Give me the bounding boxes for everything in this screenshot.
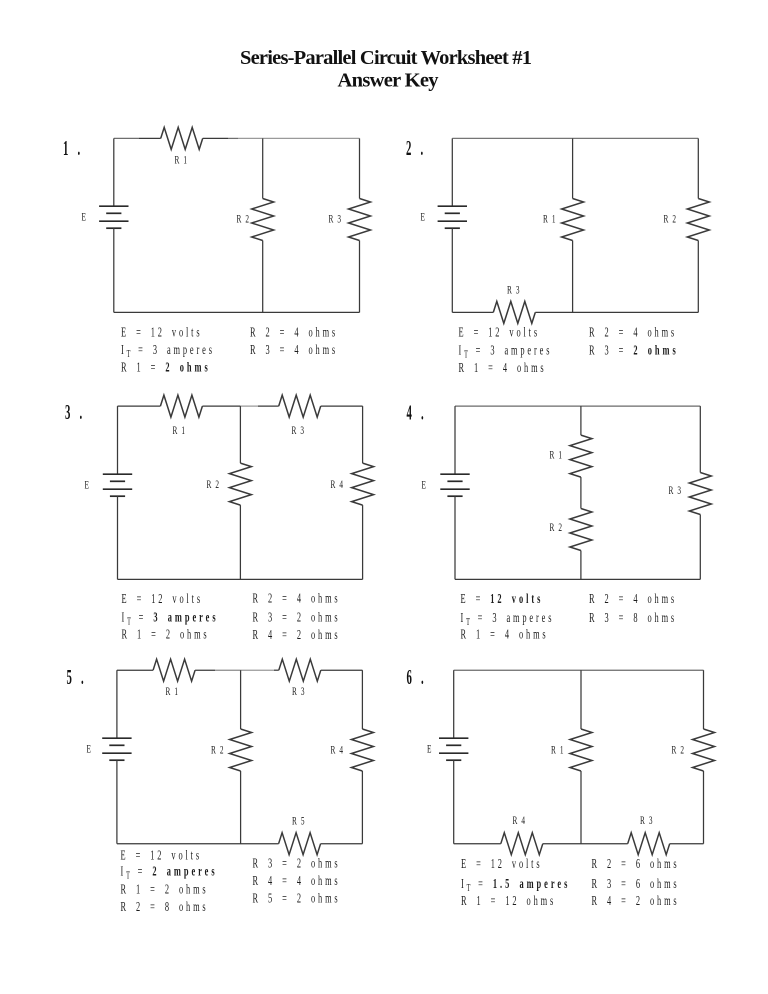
- svg-text:E: E: [422, 479, 428, 492]
- wire: C3 left branch lower: [117, 496, 119, 579]
- resistor R2 (circuit 1): [252, 199, 274, 241]
- label E (circuit 5): [87, 743, 93, 756]
- svg-text:R 4: R 4: [331, 744, 345, 757]
- wire: C6 bottom segment b: [543, 843, 628, 845]
- wire: C4 top: [455, 405, 700, 407]
- svg-text:3 .: 3 .: [65, 400, 85, 424]
- label R2 (circuit 4): [550, 521, 564, 534]
- svg-text:R 5 = 2 ohms: R 5 = 2 ohms: [253, 892, 341, 906]
- resistor R2 (circuit 4): [570, 509, 592, 551]
- wire: C5 middle branch lower: [240, 771, 242, 844]
- svg-text:E = 12 volts: E = 12 volts: [459, 326, 540, 340]
- wire: C3 middle branch lower: [239, 505, 241, 579]
- svg-text:R 4: R 4: [513, 814, 527, 827]
- wire: C4 middle branch lower: [580, 551, 582, 580]
- wire: C2 left branch upper: [451, 138, 453, 206]
- svg-text:R 3: R 3: [640, 814, 654, 827]
- wire: C3 top segment b: [202, 405, 240, 407]
- battery E (circuit 2): [438, 205, 467, 207]
- svg-text:R 3: R 3: [507, 284, 521, 297]
- label R2 (circuit 3): [207, 478, 221, 491]
- label R1 (circuit 3): [173, 424, 187, 437]
- wire: C2 middle branch lower: [572, 241, 574, 313]
- wire: C1 left branch upper: [113, 138, 115, 206]
- label R3 (circuit 3): [292, 424, 306, 437]
- answers circuit 6 left column: [461, 857, 542, 871]
- resistor R2 (circuit 3): [229, 463, 251, 505]
- svg-text:R 2 = 8 ohms: R 2 = 8 ohms: [121, 900, 209, 914]
- svg-text:4 .: 4 .: [407, 401, 427, 425]
- svg-text:R 3 = 2 ohms: R 3 = 2 ohms: [589, 344, 679, 358]
- battery E (circuit 6): [439, 737, 468, 739]
- svg-text:E: E: [87, 743, 93, 756]
- svg-text:R 2 = 6 ohms: R 2 = 6 ohms: [592, 857, 680, 871]
- svg-text:R 1 = 4 ohms: R 1 = 4 ohms: [461, 628, 549, 642]
- svg-text:IT = 2 amperes: IT = 2 amperes: [121, 865, 218, 881]
- svg-text:R 4 = 2 ohms: R 4 = 2 ohms: [253, 628, 341, 642]
- svg-text:R 1: R 1: [550, 449, 564, 462]
- wire: C5 top segment b: [195, 669, 215, 671]
- label R1 (circuit 4): [550, 449, 564, 462]
- svg-text:E = 12 volts: E = 12 volts: [461, 592, 544, 606]
- answers circuit 5 right column: [253, 857, 341, 871]
- battery E (circuit 4): [440, 473, 469, 475]
- wire: C6 bottom segment c: [670, 843, 704, 845]
- svg-text:2 .: 2 .: [406, 136, 426, 160]
- svg-text:R 3 = 2 ohms: R 3 = 2 ohms: [253, 857, 341, 871]
- wire: C5 bottom-left segment: [117, 843, 279, 845]
- svg-text:E: E: [421, 211, 427, 224]
- svg-text:IT = 3 amperes: IT = 3 amperes: [121, 343, 215, 359]
- svg-text:R 2 = 4 ohms: R 2 = 4 ohms: [253, 592, 341, 606]
- svg-text:R 3: R 3: [669, 484, 683, 497]
- wire: C4 middle branch upper: [580, 406, 582, 435]
- wire: C2 top: [452, 137, 698, 139]
- svg-text:R 4 = 4 ohms: R 4 = 4 ohms: [253, 874, 341, 888]
- svg-text:R 2 = 4 ohms: R 2 = 4 ohms: [589, 592, 677, 606]
- answers circuit 3 right column: [253, 592, 341, 606]
- svg-text:R 3: R 3: [329, 213, 343, 226]
- svg-text:R 3 = 2 ohms: R 3 = 2 ohms: [253, 611, 341, 625]
- wire: C1 left branch lower: [113, 228, 115, 312]
- wire: C5 top segment c: [321, 669, 363, 671]
- svg-text:IT = 1.5 amperes: IT = 1.5 amperes: [461, 877, 570, 893]
- wire: C2 right branch lower: [697, 241, 699, 313]
- title line 1: [240, 47, 532, 69]
- answers circuit 2 left column: [459, 326, 540, 340]
- wire: C6 left branch lower: [453, 760, 455, 844]
- wire: C1 middle branch lower: [262, 241, 264, 313]
- wire: C3 right branch upper: [362, 406, 364, 463]
- svg-text:R 2: R 2: [211, 744, 225, 757]
- answers circuit 6 right column: [592, 857, 680, 871]
- label R3 (circuit 4): [669, 484, 683, 497]
- label R2 (circuit 2): [664, 213, 678, 226]
- svg-text:R 3 = 8 ohms: R 3 = 8 ohms: [589, 611, 677, 625]
- battery E (circuit 1): [99, 205, 128, 207]
- svg-text:R 4 = 2 ohms: R 4 = 2 ohms: [592, 894, 680, 908]
- title line 2: [338, 70, 440, 92]
- resistor R3 (circuit 4): [689, 473, 711, 515]
- label R2 (circuit 6): [672, 744, 686, 757]
- svg-text:R 3 = 4 ohms: R 3 = 4 ohms: [250, 343, 338, 357]
- wire: C1 bottom: [114, 311, 360, 313]
- resistor R4 (circuit 6): [501, 833, 543, 855]
- svg-text:E: E: [427, 743, 433, 756]
- resistor R2 (circuit 2): [687, 199, 709, 241]
- svg-text:R 1: R 1: [173, 424, 187, 437]
- resistor R3 (circuit 6): [628, 833, 670, 855]
- svg-text:R 1: R 1: [543, 213, 557, 226]
- wire: C5 left branch upper: [116, 670, 118, 738]
- label E (circuit 6): [427, 743, 433, 756]
- label R4 (circuit 3): [331, 478, 345, 491]
- wire: C4 right branch upper: [699, 406, 701, 472]
- wire: C4 left branch lower: [454, 496, 456, 579]
- wire: C3 middle branch upper: [239, 406, 241, 463]
- wire: C5 top segment a: [117, 669, 153, 671]
- label R4 (circuit 6): [513, 814, 527, 827]
- svg-text:R 2 = 4 ohms: R 2 = 4 ohms: [250, 326, 338, 340]
- wire: C4 left branch upper: [454, 406, 456, 474]
- label R2 (circuit 1): [237, 213, 251, 226]
- wire: C6 middle branch upper: [580, 670, 582, 729]
- wire: C3 top segment a: [118, 405, 161, 407]
- node: circuit 5 number label: [67, 665, 87, 689]
- svg-text:R 1 = 2 ohms: R 1 = 2 ohms: [122, 628, 210, 642]
- svg-text:R 1: R 1: [175, 154, 189, 167]
- label E (circuit 3): [85, 479, 91, 492]
- svg-text:R 2: R 2: [664, 213, 678, 226]
- svg-text:R 1 = 4 ohms: R 1 = 4 ohms: [459, 361, 547, 375]
- resistor R3 (circuit 5): [279, 659, 321, 681]
- answers circuit 4 left column: [461, 592, 544, 606]
- wire: C4 middle branch mid (R1-R2): [580, 477, 582, 508]
- svg-text:Series-Parallel Circuit Worksh: Series-Parallel Circuit Worksheet #1: [240, 47, 532, 69]
- svg-text:IT = 3 amperes: IT = 3 amperes: [461, 611, 555, 627]
- wire: C6 middle branch lower: [580, 771, 582, 844]
- label R3 (circuit 6): [640, 814, 654, 827]
- svg-text:R 1: R 1: [166, 685, 180, 698]
- wire: C6 bottom segment a: [454, 843, 501, 845]
- node: circuit 6 number label: [407, 665, 427, 689]
- svg-text:6 .: 6 .: [407, 665, 427, 689]
- battery E (circuit 5): [102, 737, 131, 739]
- label R2 (circuit 5): [211, 744, 225, 757]
- wire: C5 right branch upper: [361, 670, 363, 729]
- wire: C5 middle branch upper: [240, 670, 242, 729]
- battery E (circuit 3): [103, 473, 132, 475]
- answers circuit 5 left column: [121, 849, 202, 863]
- wire: C1 middle branch upper: [262, 138, 264, 198]
- label E (circuit 2): [421, 211, 427, 224]
- resistor R1 (circuit 2): [562, 199, 584, 241]
- wire: C6 right branch upper: [703, 670, 705, 729]
- resistor R5 (circuit 5): [279, 833, 321, 855]
- label R3 (circuit 2): [507, 284, 521, 297]
- resistor R2 (circuit 5): [230, 729, 252, 771]
- wire: C2 bottom-right segment: [535, 311, 698, 313]
- wire: C3 right branch lower: [362, 505, 364, 579]
- svg-text:IT = 3 amperes: IT = 3 amperes: [122, 611, 219, 627]
- svg-text:R 1: R 1: [551, 744, 565, 757]
- wire: C1 right branch lower: [359, 241, 361, 313]
- svg-text:E = 12 volts: E = 12 volts: [121, 849, 202, 863]
- svg-text:E = 12 volts: E = 12 volts: [121, 326, 202, 340]
- svg-text:R 2 = 4 ohms: R 2 = 4 ohms: [589, 326, 677, 340]
- svg-text:R 2: R 2: [207, 478, 221, 491]
- svg-text:5 .: 5 .: [67, 665, 87, 689]
- wire: C6 top: [454, 669, 704, 671]
- svg-text:1 .: 1 .: [63, 136, 83, 160]
- svg-text:R 1 = 2 ohms: R 1 = 2 ohms: [121, 361, 211, 375]
- svg-text:R 3 = 6 ohms: R 3 = 6 ohms: [592, 877, 680, 891]
- wire: C3 bottom: [118, 578, 363, 580]
- wire: C2 left branch lower: [451, 228, 453, 312]
- wire: C5 bottom-right segment: [321, 843, 363, 845]
- wire: C2 bottom-left segment: [452, 311, 493, 313]
- label R4 (circuit 5): [331, 744, 345, 757]
- svg-text:R 2: R 2: [550, 521, 564, 534]
- svg-text:R 2: R 2: [672, 744, 686, 757]
- resistor R3 (circuit 3): [279, 395, 321, 417]
- node: circuit 2 number label: [406, 136, 426, 160]
- svg-text:R 2: R 2: [237, 213, 251, 226]
- svg-text:E = 12 volts: E = 12 volts: [122, 592, 203, 606]
- svg-text:E: E: [82, 211, 88, 224]
- svg-text:IT = 3 amperes: IT = 3 amperes: [459, 344, 553, 360]
- resistor R4 (circuit 3): [352, 463, 374, 505]
- resistor R1 (circuit 4): [570, 435, 592, 477]
- svg-text:R 1 = 2 ohms: R 1 = 2 ohms: [121, 883, 209, 897]
- svg-text:R 5: R 5: [292, 815, 306, 828]
- node: circuit 3 number label: [65, 400, 85, 424]
- resistor R1 (circuit 5): [153, 659, 195, 681]
- resistor R4 (circuit 5): [351, 729, 373, 771]
- svg-text:R 4: R 4: [331, 478, 345, 491]
- label R1 (circuit 6): [551, 744, 565, 757]
- wire: C2 right branch upper: [697, 138, 699, 198]
- node: circuit 1 number label: [63, 136, 83, 160]
- label R1 (circuit 2): [543, 213, 557, 226]
- resistor R1 (circuit 1): [161, 127, 203, 149]
- svg-text:E = 12 volts: E = 12 volts: [461, 857, 542, 871]
- answers circuit 3 left column: [122, 592, 203, 606]
- wire: C4 bottom: [455, 578, 700, 580]
- node: circuit 4 number label: [407, 401, 427, 425]
- label E (circuit 4): [422, 479, 428, 492]
- label R1: [175, 154, 189, 167]
- answers circuit 1 right column: [250, 326, 338, 340]
- answers circuit 1 left column: [121, 326, 202, 340]
- svg-text:R 1 = 12 ohms: R 1 = 12 ohms: [461, 894, 556, 908]
- label R3 (circuit 5): [292, 685, 306, 698]
- resistor R3 (circuit 1): [349, 199, 371, 241]
- resistor R1 (circuit 3): [160, 395, 202, 417]
- label E (circuit 1): [82, 211, 88, 224]
- svg-text:E: E: [85, 479, 91, 492]
- wire: C2 middle branch upper: [572, 138, 574, 198]
- wire: C3 top segment c: [321, 405, 363, 407]
- wire: C6 left branch upper: [453, 670, 455, 738]
- answers circuit 2 right column: [589, 326, 677, 340]
- resistor R1 (circuit 6): [570, 729, 592, 771]
- label R5 (circuit 5): [292, 815, 306, 828]
- wire: C5 right branch lower: [361, 771, 363, 844]
- wire: C1 right branch upper: [359, 138, 361, 198]
- resistor R3 (circuit 2): [493, 301, 535, 323]
- wire: C5 left branch lower: [116, 760, 118, 844]
- label R1 (circuit 5): [166, 685, 180, 698]
- answers circuit 4 right column: [589, 592, 677, 606]
- label R3 (circuit 1): [329, 213, 343, 226]
- wire: C1 top-right segment: [203, 137, 228, 139]
- resistor R2 (circuit 6): [693, 729, 715, 771]
- svg-text:Answer Key: Answer Key: [338, 70, 440, 92]
- svg-text:R 3: R 3: [292, 424, 306, 437]
- wire: C1 top-left segment: [114, 137, 139, 139]
- svg-text:R 3: R 3: [292, 685, 306, 698]
- wire: C6 right branch lower: [703, 771, 705, 844]
- wire: C3 left branch upper: [117, 406, 119, 474]
- wire: C4 right branch lower: [699, 515, 701, 580]
